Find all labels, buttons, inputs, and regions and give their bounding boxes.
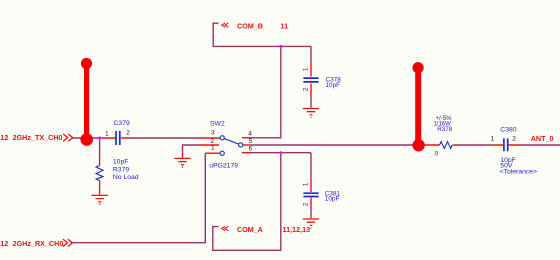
capacitor C380 leads — [493, 144, 519, 146]
svg-text:No Load: No Load — [113, 174, 139, 181]
resistor R379 — [96, 166, 103, 181]
svg-text:5: 5 — [249, 138, 253, 145]
wire to ANT_0 — [519, 144, 560, 146]
wire TX row — [72, 137, 199, 139]
svg-text:11,12,13: 11,12,13 — [283, 225, 311, 234]
svg-text:6: 6 — [249, 146, 253, 153]
wire pin1 to RX — [71, 153, 206, 243]
svg-text:C379: C379 — [114, 120, 130, 127]
wire pin2 ground branch — [183, 145, 200, 153]
svg-text:SW2: SW2 — [210, 120, 225, 127]
svg-text:3: 3 — [211, 129, 215, 136]
capacitor C381 labels — [303, 182, 341, 206]
ground (SW2 pin2) — [174, 158, 190, 167]
node COM_B port — [222, 21, 288, 30]
svg-text:12: 12 — [0, 239, 8, 248]
node 2GHz_RX_CH0 port — [0, 239, 72, 248]
svg-text:11: 11 — [281, 21, 289, 30]
capacitor C379 labels — [105, 120, 130, 165]
wire pin4 column — [251, 46, 281, 137]
svg-text:1: 1 — [211, 145, 215, 152]
wire COM_A outline — [213, 153, 281, 251]
svg-text:ANT_0: ANT_0 — [531, 134, 554, 143]
SW2 pin 2 lead — [200, 144, 220, 146]
capacitor C381 — [303, 193, 318, 196]
ground (C381) — [303, 219, 319, 228]
node COM_A port — [222, 225, 310, 234]
svg-text:2: 2 — [303, 87, 310, 91]
svg-text:2: 2 — [512, 136, 516, 143]
svg-text:12: 12 — [0, 133, 8, 142]
SW2 common circle pin5 — [239, 143, 243, 147]
svg-text:C380: C380 — [500, 127, 516, 134]
capacitor C380 labels — [490, 127, 537, 176]
red component leads — [100, 65, 519, 207]
resistor R378 labels — [433, 116, 452, 157]
resistor R379 leads — [99, 158, 101, 189]
node junction COM_A/pin6 — [279, 151, 282, 154]
svg-text:10pF: 10pF — [325, 195, 340, 202]
node ANT probe bar — [412, 62, 424, 151]
svg-text:COM_B: COM_B — [237, 21, 263, 30]
wire pin6 row — [251, 152, 312, 154]
wire pin5 output row — [251, 144, 415, 146]
svg-text:COM_A: COM_A — [237, 225, 263, 234]
node junction COM_B/pin4 — [279, 45, 282, 48]
svg-text:2GHz_TX_CH0: 2GHz_TX_CH0 — [13, 133, 63, 142]
wire R378 to C380 — [458, 144, 493, 146]
wire — [71, 23, 560, 250]
capacitor C380 — [504, 138, 508, 151]
SW2 pin 6 lead — [242, 152, 251, 154]
SW2 throw circle pin3 — [220, 136, 224, 140]
svg-text:1: 1 — [490, 136, 494, 143]
node junction C379/R379 — [98, 137, 101, 140]
svg-text:1: 1 — [303, 67, 310, 71]
ground (C378) — [303, 109, 319, 118]
capacitor C379 — [116, 131, 120, 145]
wire C381 column — [310, 153, 312, 219]
svg-text:10pF: 10pF — [326, 82, 341, 89]
capacitor C379 leads — [104, 137, 130, 139]
capacitor C378 leads — [310, 65, 312, 96]
svg-text:2: 2 — [303, 202, 310, 206]
wire C378 column — [310, 46, 312, 107]
node TX probe bar — [80, 58, 93, 146]
SW2 pin 4 lead — [242, 137, 251, 139]
resistor R378 leads — [425, 144, 458, 146]
capacitor C381 leads — [310, 184, 312, 207]
svg-text:<Tolerance>: <Tolerance> — [500, 169, 537, 176]
capacitor C378 — [303, 78, 318, 82]
capacitor C378 labels — [303, 67, 342, 91]
node 2GHz_TX_CH0 port — [0, 133, 72, 142]
wire COM_B outline — [213, 23, 311, 46]
wire R379 branch — [99, 138, 101, 195]
SW2 throw circle pin1 — [220, 151, 224, 155]
op-amp SW2 labels — [209, 120, 252, 169]
op-amp SW2 switch arm — [222, 138, 241, 145]
svg-text:R379: R379 — [113, 167, 129, 174]
svg-text:10pF: 10pF — [113, 159, 128, 166]
resistor R378 — [440, 142, 454, 149]
svg-text:1: 1 — [105, 131, 109, 138]
svg-text:2: 2 — [126, 130, 130, 137]
svg-text:4: 4 — [248, 130, 252, 137]
svg-text:2GHz_RX_CH0: 2GHz_RX_CH0 — [13, 239, 64, 248]
SW2 pin 3 lead — [200, 137, 221, 139]
ground (R379) — [92, 195, 108, 204]
svg-text:1: 1 — [303, 182, 310, 186]
resistor R379 labels — [113, 167, 139, 181]
SW2 pin 1 lead — [205, 152, 220, 154]
SW2 pin 5 lead — [243, 144, 251, 146]
svg-text:R378: R378 — [437, 126, 453, 133]
svg-text:uPG2179: uPG2179 — [209, 163, 238, 170]
svg-text:0: 0 — [435, 150, 439, 157]
ground lead pin2 — [182, 153, 184, 158]
